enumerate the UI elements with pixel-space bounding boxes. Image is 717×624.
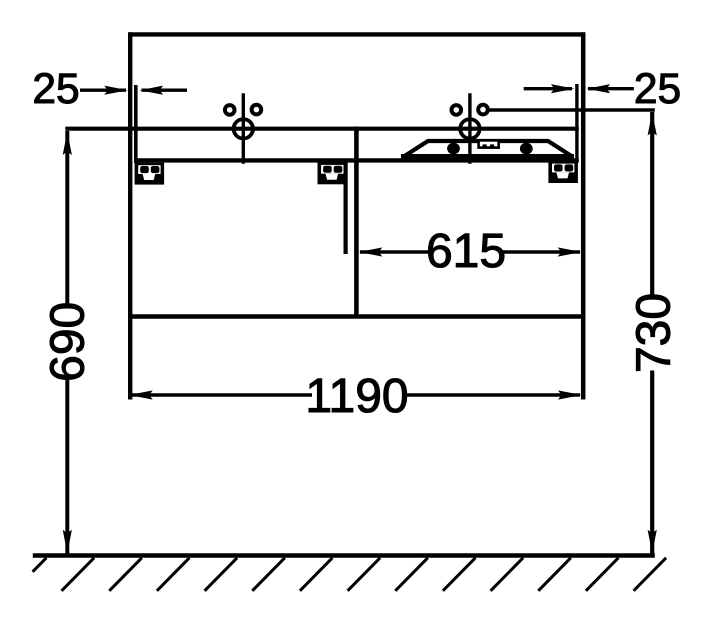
svg-text:615: 615 (426, 225, 506, 278)
svg-text:25: 25 (32, 66, 79, 113)
svg-text:25: 25 (634, 66, 681, 113)
svg-text:730: 730 (628, 293, 681, 373)
svg-text:690: 690 (42, 302, 95, 382)
svg-text:1190: 1190 (305, 370, 408, 423)
